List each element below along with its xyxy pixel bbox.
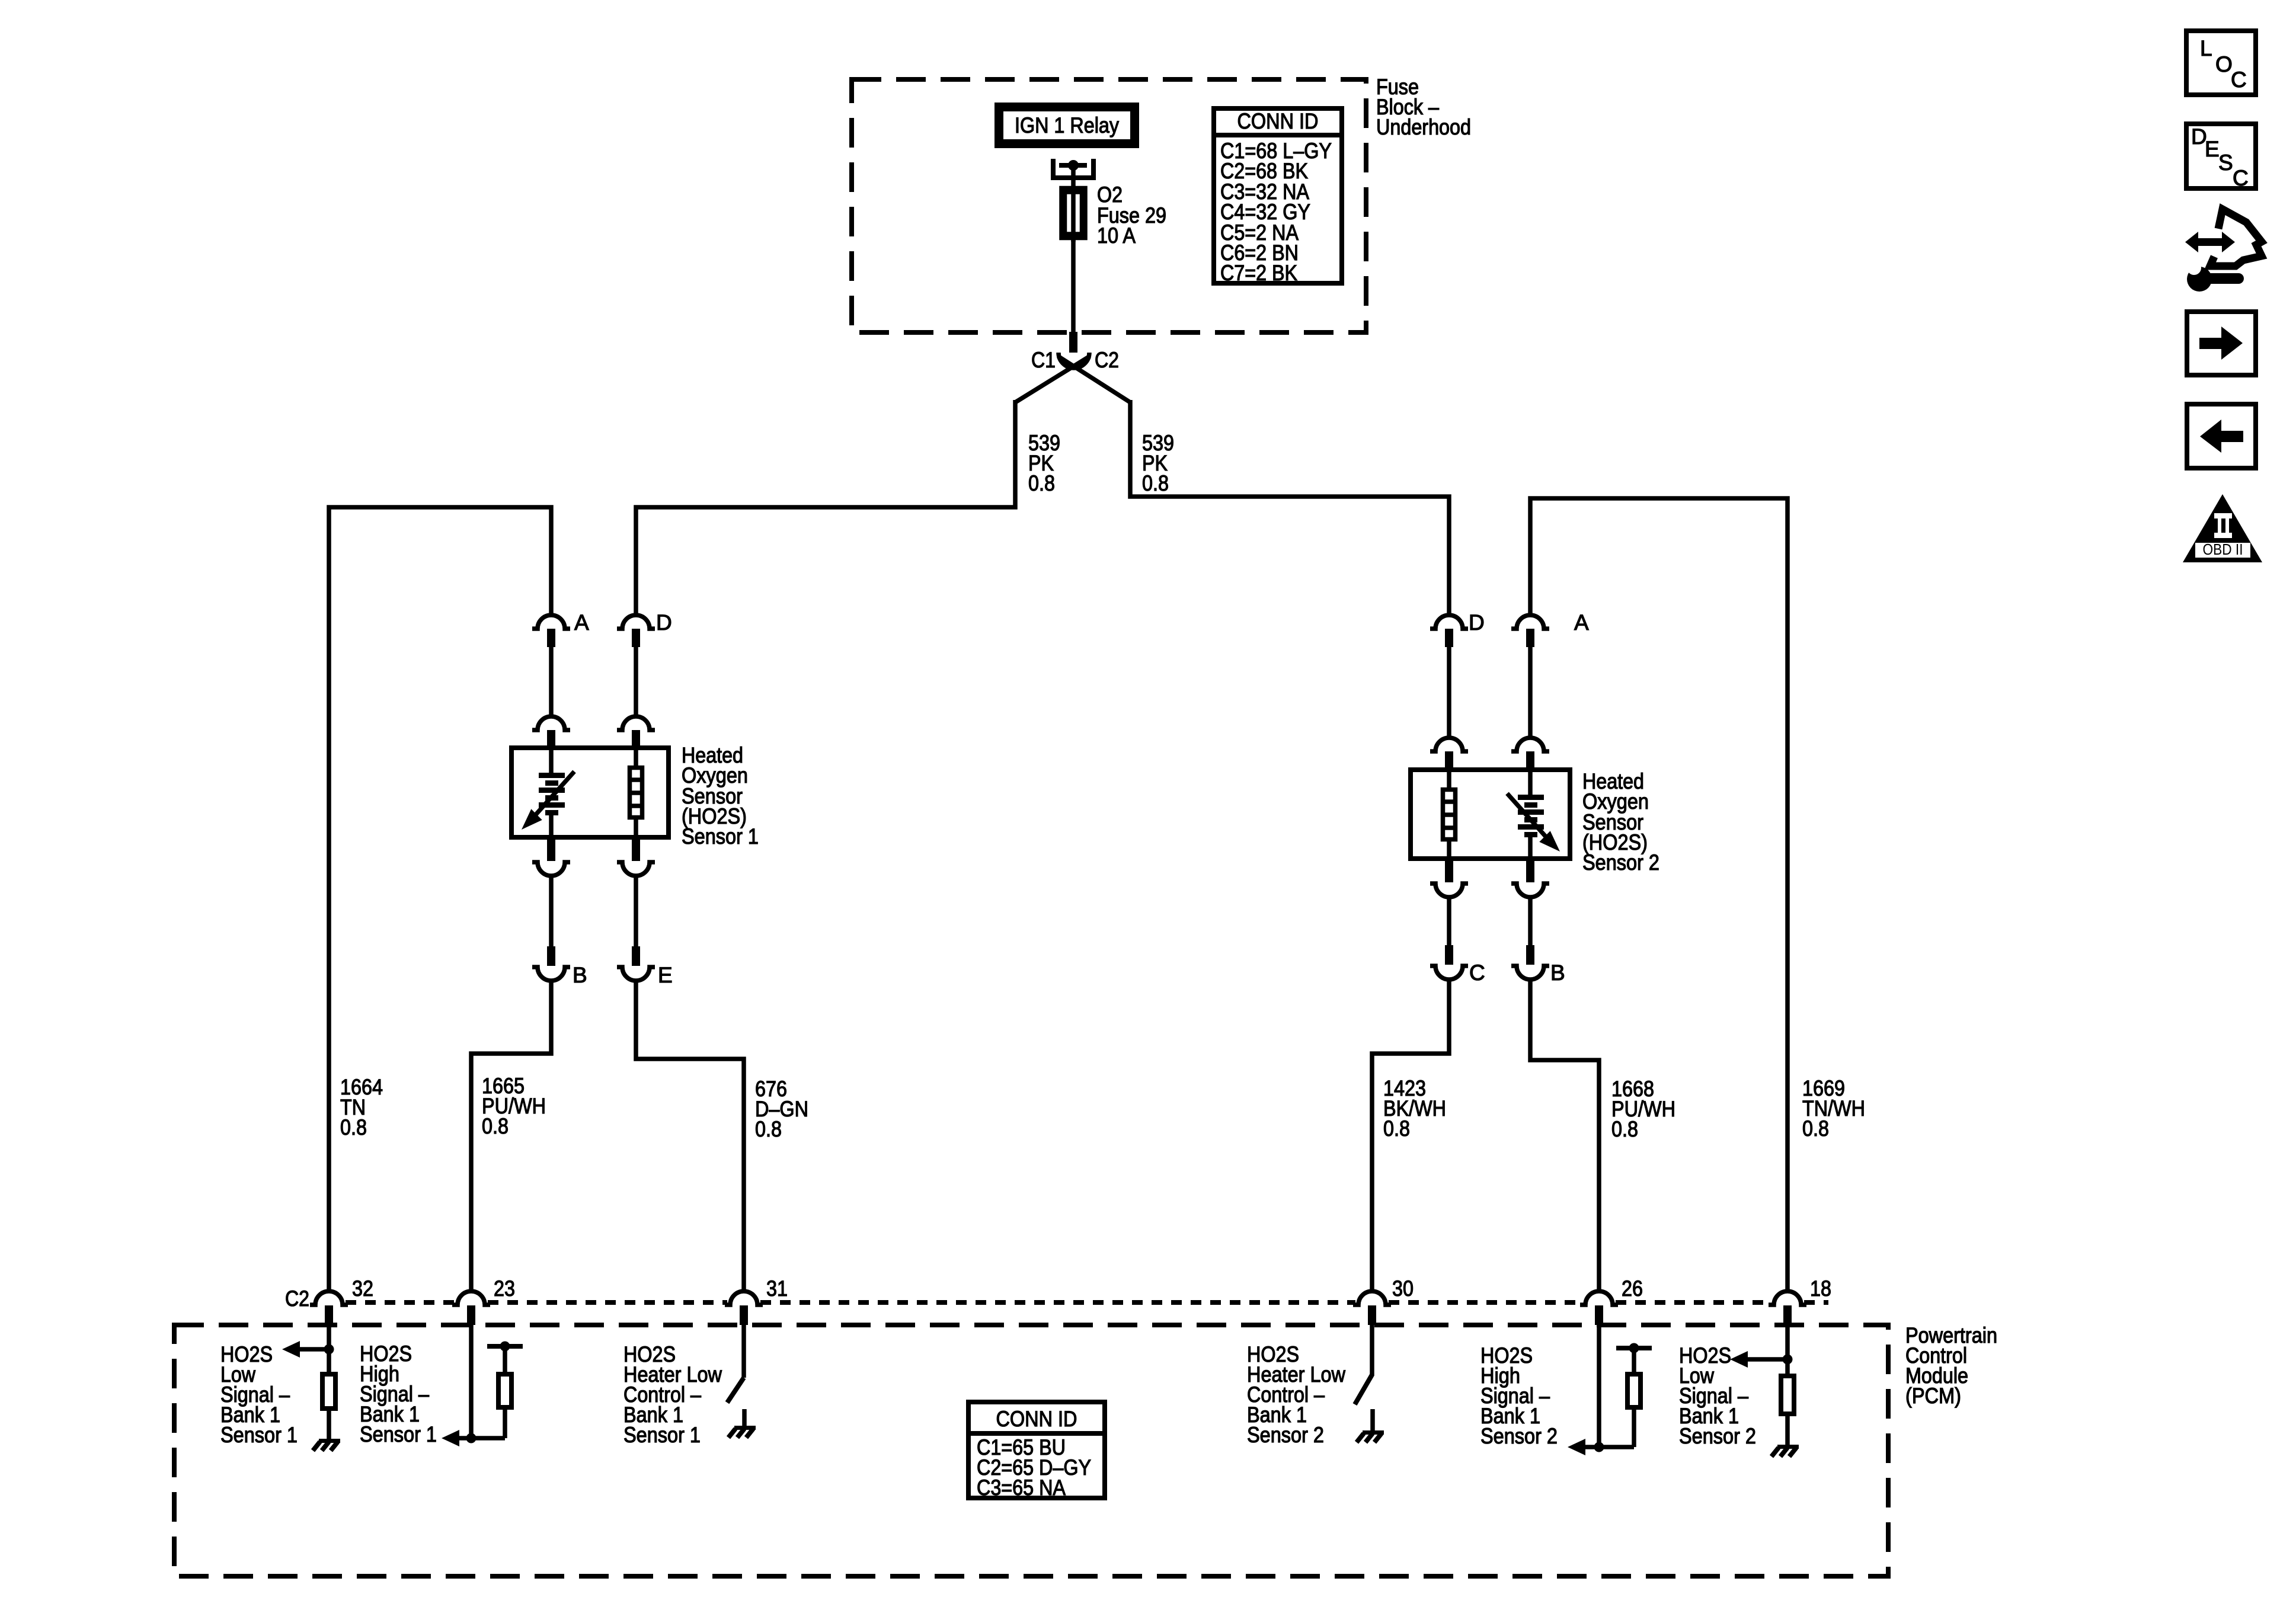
svg-text:0.8: 0.8 [1028,471,1055,495]
relay K1 IGN 1 Relay box [994,103,1139,148]
svg-text:10 A: 10 A [1097,223,1136,248]
svg-text:C: C [2231,68,2247,92]
svg-text:OBD II: OBD II [2203,540,2243,558]
net HO2S heater low control bank1 sensor1 (term 31) [727,1325,756,1438]
sensor1 pigtail exit connector E (stub+cup) [617,837,655,876]
svg-text:Sensor 1: Sensor 1 [623,1423,701,1447]
CONN ID table (fuse block) [1214,108,1342,285]
svg-text:L: L [2200,36,2212,60]
wire 1423 BK/WH: C down, left, down to PCM 30 [1372,980,1449,1289]
terminal 18 [1769,1276,1831,1325]
label 539 PK 0.8 left [1028,431,1060,495]
svg-text:0.8: 0.8 [755,1117,782,1141]
sensor 2 label [1582,769,1659,875]
wrench [2187,267,2212,292]
svg-text:B: B [573,963,587,987]
terminal 23 [452,1276,515,1325]
fuse block label [1376,75,1471,139]
icon LOC [2186,31,2256,95]
sensor1 pigtail connector D (arc+stub) [617,716,655,750]
icon OBD II triangle [2183,494,2262,562]
wire A to sensor1 connector [549,647,554,716]
PCM connector face dotted line [346,1300,1828,1305]
sensor 1 sensing element (variable battery) [522,748,574,837]
label Powertrain Control Module (PCM) [1905,1323,1997,1408]
CONN ID table (PCM) [968,1402,1105,1500]
sensor 1 heater element (resistor box) [628,748,644,837]
label 539 PK 0.8 right [1142,431,1174,495]
wire C2 diagonal to right branch [1058,356,1130,402]
wire 539 PK left vertical [636,400,1015,616]
label 1423 BK/WH 0.8 [1383,1076,1446,1141]
wire D to sensor1 connector [634,647,638,716]
svg-text:31: 31 [766,1276,788,1301]
svg-text:A: A [574,610,589,635]
svg-text:Sensor 2: Sensor 2 [1582,850,1659,875]
svg-text:Sensor 1: Sensor 1 [682,824,759,849]
svg-text:30: 30 [1392,1276,1414,1301]
sensor2 pigtail exit connector C (stub+cup) [1430,859,1468,897]
wire PCM 18 up and over to sensor2 A [1530,498,1787,1289]
icon wire repair (double arrow, path, wrench) [2185,209,2262,292]
wire to connector B [1528,898,1533,946]
connector A (harness, upper) [532,610,589,647]
svg-text:CONN ID: CONN ID [996,1407,1077,1431]
wire D to sensor2 connector [1447,647,1451,738]
wire fuse to splice [1071,237,1076,332]
relay output terminal (bracket with contact dot) [1051,159,1096,180]
wire C1 diagonal to left branch [1015,356,1090,402]
splice male stub through fuse block edge [1069,332,1077,353]
icon DESC [2186,124,2256,190]
svg-text:C3=65 NA: C3=65 NA [977,1475,1066,1500]
label 1668 PU/WH 0.8 [1611,1077,1675,1141]
svg-text:C2: C2 [1095,348,1119,372]
net HO2S high signal bank1 sensor1 (term 23) [442,1325,523,1446]
PCM dashed box [174,1325,1888,1576]
wire 676 D-GN: E down, right, down to PCM 31 [636,981,744,1289]
svg-text:Underhood: Underhood [1376,115,1471,139]
svg-text:18: 18 [1810,1276,1831,1301]
svg-text:23: 23 [494,1276,515,1301]
svg-text:A: A [1574,610,1589,635]
svg-text:C: C [1469,961,1485,985]
label HO2S Heater Low Control Bank 1 Sensor 2 [1247,1342,1345,1447]
svg-text:S: S [2218,151,2233,175]
sensor2 pigtail connector D (arc+stub) [1430,738,1468,772]
svg-text:B: B [1550,961,1565,985]
wire 1665 PU/WH: B down, left, down to PCM 23 [471,981,551,1289]
net HO2S heater low control bank1 sensor2 (term 30) [1355,1325,1384,1442]
svg-text:C: C [2233,166,2249,190]
wire to connector C [1447,898,1451,946]
connector D (harness, upper right) [1430,610,1485,647]
svg-text:E: E [2205,137,2220,161]
sensor1 pigtail exit connector B (stub+cup) [532,837,570,876]
connector A (harness, upper right) [1511,610,1589,647]
label 676 D-GN 0.8 [755,1077,808,1141]
svg-text:0.8: 0.8 [1611,1117,1638,1141]
connector B (harness, lower right) [1511,945,1565,985]
svg-text:0.8: 0.8 [1383,1116,1410,1141]
sensor 2 heater element (resistor box) [1441,770,1457,859]
wire to connector E [634,876,638,947]
terminal 30 [1353,1276,1414,1325]
terminal 26 [1580,1276,1643,1325]
terminal 31 [725,1276,788,1325]
fuse F29 (O2 Fuse 29 10 A) [1061,186,1085,242]
connector C1 C2 cup [1031,348,1119,372]
wire relay to fuse [1071,168,1076,188]
terminal 32 (conn C2) [285,1276,373,1325]
wire PCM 32 up and over to sensor1 A [329,507,551,1289]
net HO2S high signal bank1 sensor2 (term 26) [1568,1325,1652,1455]
label HO2S Heater Low Control Bank 1 Sensor 1 [623,1342,722,1447]
icon arrow left [2187,404,2256,468]
wire 539 PK right vertical [1130,400,1449,616]
svg-text:C2: C2 [285,1286,309,1311]
svg-text:CONN ID: CONN ID [1237,109,1319,133]
svg-text:IGN 1 Relay: IGN 1 Relay [1015,113,1119,137]
HO2S sensor 1 box [511,748,669,837]
sensor1 pigtail connector A (arc+stub) [532,716,570,750]
wire to connector B [549,876,554,947]
svg-text:0.8: 0.8 [482,1114,509,1138]
sensor2 pigtail connector A (arc+stub) [1511,738,1549,772]
label 1669 TN/WH 0.8 [1802,1076,1865,1141]
label HO2S Low Signal Bank 1 Sensor 2 [1679,1343,1756,1448]
svg-text:0.8: 0.8 [340,1115,367,1140]
svg-text:E: E [658,963,673,987]
svg-text:0.8: 0.8 [1802,1116,1829,1141]
svg-text:D: D [1469,610,1485,635]
sensor2 pigtail exit connector B (stub+cup) [1511,859,1549,897]
connector B (harness, lower) [532,946,587,987]
svg-text:32: 32 [352,1276,373,1301]
svg-text:(PCM): (PCM) [1905,1384,1961,1408]
label HO2S Low Signal Bank 1 Sensor 1 [220,1342,298,1447]
svg-text:0.8: 0.8 [1142,471,1169,495]
svg-text:26: 26 [1622,1276,1643,1301]
svg-text:Sensor 1: Sensor 1 [360,1422,437,1446]
svg-text:O: O [2215,52,2233,76]
connector D (harness, upper) [617,610,672,647]
sensor 2 sensing element (variable battery) [1507,770,1560,859]
bent path outline [2210,209,2262,266]
wire 1668 PU/WH: B down, right, down to PCM 26 [1530,980,1599,1289]
label HO2S High Signal Bank 1 Sensor 2 [1480,1343,1558,1448]
net HO2S low signal bank1 sensor2 (term 18) [1730,1325,1799,1457]
connector C (harness, lower right) [1430,945,1485,985]
label 1664 TN 0.8 [340,1075,383,1140]
wire A to sensor2 connector [1528,647,1533,738]
svg-text:Sensor 2: Sensor 2 [1480,1424,1558,1448]
double-headed arrow [2195,238,2225,246]
svg-text:Sensor 2: Sensor 2 [1679,1424,1756,1448]
svg-text:C1: C1 [1031,348,1056,372]
svg-text:C7=2 BK: C7=2 BK [1220,261,1297,285]
icon arrow right [2187,312,2256,375]
label 1665 PU/WH 0.8 [482,1074,546,1138]
connector E (harness, lower) [617,946,673,987]
net HO2S low signal bank1 sensor1 (term 32) [282,1325,340,1451]
svg-text:D: D [656,610,672,635]
HO2S sensor 2 box [1411,770,1570,859]
svg-text:Sensor 2: Sensor 2 [1247,1423,1324,1447]
label HO2S High Signal Bank 1 Sensor 1 [360,1342,437,1446]
fuse block underhood dashed box [852,79,1366,332]
svg-text:Sensor 1: Sensor 1 [220,1423,298,1447]
sensor 1 label [682,743,759,849]
